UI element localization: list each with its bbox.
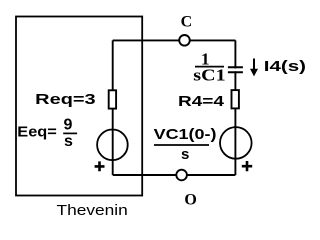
svg-text:Eeq=: Eeq= bbox=[17, 123, 57, 140]
svg-text:VC1(0-): VC1(0-) bbox=[154, 126, 217, 143]
voltage source VC1 circle bbox=[220, 127, 252, 159]
resistor R4 bbox=[232, 90, 239, 108]
svg-text:sC1: sC1 bbox=[193, 66, 225, 85]
node C terminal circle bbox=[179, 35, 190, 46]
capacitor C1 plates bbox=[228, 67, 243, 72]
plus sign of VC1 bbox=[242, 161, 252, 171]
svg-text:R4=4: R4=4 bbox=[178, 93, 225, 110]
node O terminal circle bbox=[176, 170, 187, 181]
wire: top horizontal bbox=[113, 39, 236, 41]
wire: right branch vertical bbox=[234, 40, 236, 175]
Eeq fraction bar bbox=[63, 132, 77, 134]
svg-text:9: 9 bbox=[64, 117, 73, 134]
svg-text:Req=3: Req=3 bbox=[35, 91, 95, 108]
VC1 fraction bar bbox=[154, 144, 209, 146]
svg-text:I4(s): I4(s) bbox=[264, 58, 306, 75]
plus sign of Eeq bbox=[95, 161, 105, 171]
resistor Req bbox=[109, 90, 116, 108]
voltage source Eeq circle bbox=[97, 130, 128, 161]
wire: left branch vertical bbox=[112, 40, 114, 175]
wire: bottom horizontal bbox=[113, 174, 236, 176]
svg-text:s: s bbox=[64, 133, 73, 150]
capacitor C1 gap eraser bbox=[228, 69, 243, 72]
svg-text:C: C bbox=[181, 14, 193, 31]
svg-text:O: O bbox=[184, 191, 196, 208]
C1 impedance fraction bar bbox=[195, 66, 224, 68]
svg-text:Thevenin: Thevenin bbox=[57, 202, 128, 219]
svg-text:s: s bbox=[181, 146, 189, 163]
current arrow I4 bbox=[253, 59, 255, 71]
Thevenin box bbox=[16, 17, 142, 196]
